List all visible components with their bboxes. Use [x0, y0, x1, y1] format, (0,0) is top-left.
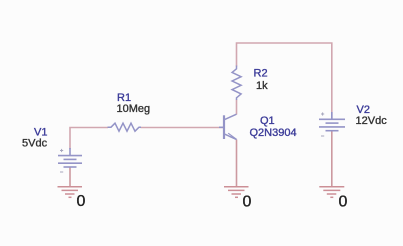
ground under V2 [319, 187, 344, 198]
resistor R2 [232, 66, 241, 101]
ground under Q1 emitter [224, 187, 249, 198]
V2 minus sign [321, 135, 324, 137]
wire R1 to Q1 base [141, 127, 224, 129]
base bar [223, 115, 225, 139]
svg-text:0: 0 [339, 193, 348, 210]
wire Q1 emitter to ground [236, 140, 238, 188]
svg-text:R2: R2 [254, 68, 268, 80]
V1 plus sign [60, 149, 63, 152]
wire V1 minus to ground [69, 167, 71, 187]
svg-text:V2: V2 [357, 104, 370, 116]
svg-text:Q1: Q1 [260, 115, 275, 127]
source V1 (battery symbol) [58, 148, 82, 167]
svg-text:5Vdc: 5Vdc [22, 137, 48, 149]
svg-text:0: 0 [77, 193, 86, 210]
wire R2 top to V2 (top rail) [237, 43, 332, 120]
svg-text:Q2N3904: Q2N3904 [250, 127, 297, 139]
wire V2 minus to ground [331, 131, 333, 187]
svg-text:1k: 1k [256, 80, 268, 92]
base pin stub [219, 126, 224, 128]
V1 minus sign [60, 171, 63, 173]
svg-text:12Vdc: 12Vdc [356, 115, 388, 127]
svg-text:0: 0 [243, 193, 252, 210]
ground under V1 [58, 187, 83, 198]
V2 plus sign [321, 112, 324, 115]
source V2 (battery symbol) [319, 112, 345, 131]
wire Q1 collector to R2 [236, 100, 238, 115]
emitter arrow barbs [230, 137, 237, 140]
transistor Q1 (NPN 2N3904) [219, 114, 237, 139]
svg-text:10Meg: 10Meg [117, 103, 151, 115]
emitter diagonal [224, 134, 237, 140]
wire V1 top to R1 (vertical riser + horizontal run) [70, 128, 108, 150]
resistor R1 [108, 123, 142, 131]
collector diagonal [224, 114, 237, 120]
